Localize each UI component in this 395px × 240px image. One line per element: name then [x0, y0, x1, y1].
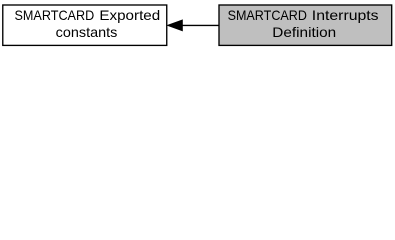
svg-text:SMARTCARD: SMARTCARD	[228, 7, 307, 23]
svg-text:Exported: Exported	[99, 7, 160, 23]
svg-text:Definition: Definition	[272, 24, 336, 40]
node: SMARTCARD Exported constants	[3, 5, 167, 45]
svg-text:SMARTCARD: SMARTCARD	[15, 7, 95, 23]
svg-text:constants: constants	[56, 24, 118, 40]
edge arrow	[168, 20, 219, 31]
node: SMARTCARD Interrupts Definition (current, highlighted)	[219, 5, 392, 45]
svg-text:Interrupts: Interrupts	[312, 7, 379, 23]
